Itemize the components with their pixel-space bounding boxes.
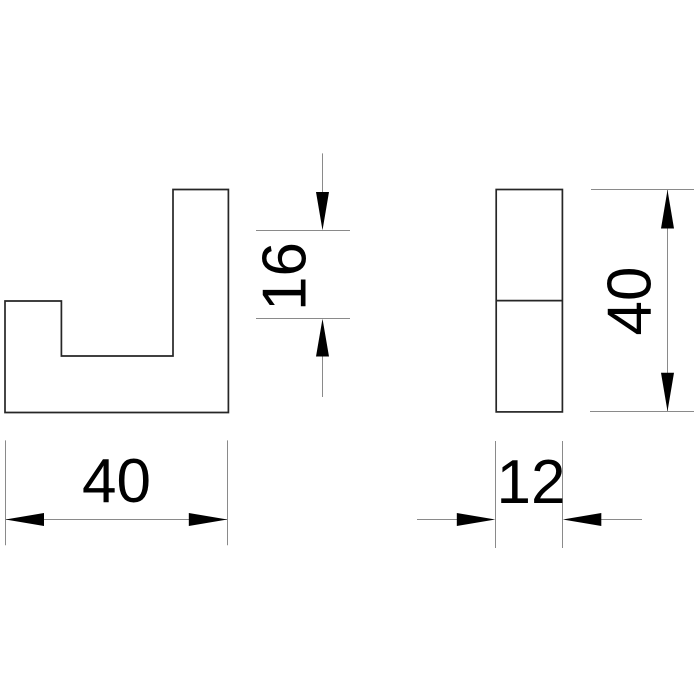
svg-text:40: 40 xyxy=(82,447,151,516)
svg-text:12: 12 xyxy=(497,448,566,517)
dimension 16 upper arrow (pointing down) xyxy=(316,192,329,230)
dimension 40 (right side) extension line bottom xyxy=(590,411,694,413)
side view rectangle xyxy=(496,190,562,412)
dimension 40 (right side) arrow top (pointing up) xyxy=(661,190,674,229)
svg-text:40: 40 xyxy=(596,267,665,336)
dimension 16 lower leader tail xyxy=(322,356,324,397)
dimension 12 left arrow (pointing right) xyxy=(457,513,496,526)
svg-text:16: 16 xyxy=(251,242,320,311)
dimension 40 (bottom left) extension line left xyxy=(5,440,7,545)
front view hook outline xyxy=(5,190,228,413)
side view parting line xyxy=(496,300,562,302)
dimension 16 extension line bottom xyxy=(256,318,350,320)
dimension 12 extension line left xyxy=(495,441,497,548)
dimension 12 right leader tail xyxy=(601,519,642,521)
dimension 40 (bottom left) arrow left xyxy=(6,513,45,526)
dimension 40 (bottom left) arrow right xyxy=(189,513,228,526)
dimension 12 left leader tail xyxy=(417,519,458,521)
dimension 16 extension line top xyxy=(256,230,350,232)
dimension 12 extension line right xyxy=(562,441,564,548)
dimension 12 right arrow (pointing left) xyxy=(563,513,602,526)
dimension 40 (bottom left) extension line right xyxy=(227,440,229,545)
dimension 40 (right side) dimension line xyxy=(667,190,669,412)
dimension 40 (right side) extension line top xyxy=(591,189,694,191)
dimension 40 (right side) arrow bottom (pointing down) xyxy=(661,373,674,412)
dimension 40 (bottom left) dimension line xyxy=(5,519,228,521)
dimension 16 upper leader tail xyxy=(322,153,324,194)
dimension 16 lower arrow (pointing up) xyxy=(316,319,329,357)
